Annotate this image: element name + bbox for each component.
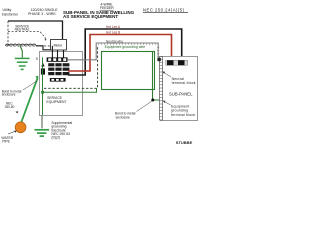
wire: bonding green line (43, 88, 97, 92)
neutral wire ticks (99, 43, 160, 56)
wire: bonding dashed line (44, 47, 98, 89)
leader: equipment grounding terminal (164, 101, 171, 105)
wire: GEC thick green diagonal to water pipe (21, 78, 38, 124)
wire: hot leg 1 top from transformer to meter (8, 21, 63, 40)
svg-text:grounding: grounding (171, 108, 188, 112)
wire: transformer ground stem (20, 46, 22, 58)
svg-text:PIPE: PIPE (2, 139, 10, 143)
meter box (51, 40, 67, 51)
service neutral bus bar (47, 57, 68, 61)
leader: bond left (23, 81, 38, 90)
svg-text:terminal block: terminal block (172, 81, 196, 85)
svg-text:EQUIPMENT: EQUIPMENT (46, 100, 66, 104)
ground symbol: transformer grounding electrode (15, 58, 30, 69)
junction dot (151, 99, 154, 102)
main bonding jumper arrow (41, 63, 44, 67)
svg-text:transformer: transformer (2, 13, 19, 17)
label: SERVICE NEUTRAL (15, 24, 30, 31)
wire: neutral grey feeder (68, 43, 158, 60)
label: Neutral terminal block (172, 77, 196, 85)
leader: water pipe arrow (8, 131, 16, 134)
main disconnect block (41, 68, 45, 74)
svg-text:Hot Leg B: Hot Leg B (106, 30, 120, 34)
svg-text:enclosure: enclosure (116, 116, 130, 120)
wire: GEC green vertical inside panel (42, 58, 44, 116)
svg-text:AS SERVICE EQUIPMENT: AS SERVICE EQUIPMENT (63, 14, 118, 19)
label: Bond to metal enclosure (right) (115, 112, 136, 120)
label: Utility transformer (2, 8, 19, 17)
svg-text:terminal block: terminal block (171, 113, 195, 117)
svg-text:Meter: Meter (54, 43, 64, 47)
label: Supplemental grounding Electrode NEC 250.53 (D)(2) (51, 121, 72, 140)
label: Bond to metal enclosure (left) (2, 90, 22, 97)
leader: neutral terminal (164, 72, 172, 77)
neutral terminal strip ladder (159, 57, 163, 121)
svg-text:NEUTRAL: NEUTRAL (15, 28, 30, 32)
wire: equipment grounding green (102, 52, 160, 101)
svg-text:Equipment grounding wire: Equipment grounding wire (105, 45, 146, 49)
junction: GEC bond (41, 91, 44, 94)
wire: hot leg 2 over meter (51, 46, 53, 58)
wire: meter outputs down to bus (57, 50, 59, 58)
neutral wire terminal blob (157, 58, 160, 61)
sub-panel main lug bus (166, 60, 188, 65)
svg-text:250.80: 250.80 (5, 105, 15, 109)
svg-text:(D)(2): (D)(2) (51, 136, 60, 140)
svg-text:Neutral wire: Neutral wire (106, 39, 123, 43)
sub-panel enclosure (161, 57, 198, 121)
svg-text:NEC 250.24(A)(5): NEC 250.24(A)(5) (143, 7, 185, 12)
service ground bar bottom (50, 78, 66, 82)
ground symbol: supplemental electrode (35, 130, 50, 136)
water pipe circle (15, 122, 26, 133)
svg-text:Hot Leg A: Hot Leg A (106, 25, 121, 29)
label: sub-panel in same dwelling (63, 10, 135, 19)
label: 4-wire feeder (100, 3, 114, 11)
svg-text:STUBBE: STUBBE (176, 140, 193, 145)
svg-text:SUB-PANEL: SUB-PANEL (169, 91, 193, 96)
svg-text:Utility: Utility (3, 8, 12, 12)
label: WATER PIPE (1, 136, 13, 143)
wire: hot leg B black feeder (68, 29, 182, 75)
wire: supplemental GEC stem below panel (41, 116, 43, 129)
wire: service neutral dashed with arrow (8, 32, 46, 39)
label: Equipment grounding terminal block (171, 104, 195, 116)
service equipment enclosure (40, 52, 83, 116)
wire: hot leg 2 bottom from coil to panel (36, 46, 52, 50)
svg-text:enclosure: enclosure (2, 93, 16, 97)
label: 120/240 single phase (28, 8, 58, 16)
breaker grid (48, 63, 69, 75)
label: NEC 250.80 (5, 102, 15, 109)
label: SERVICE EQUIPMENT (46, 96, 66, 104)
svg-text:PHASE 3 - WIRE: PHASE 3 - WIRE (28, 12, 56, 16)
wire: hot leg A red feeder (68, 35, 172, 72)
transformer dashed box (7, 21, 9, 46)
transformer secondary coil (6, 44, 36, 46)
green bonded enclosure box (102, 52, 155, 90)
leader: bond right (137, 101, 153, 112)
